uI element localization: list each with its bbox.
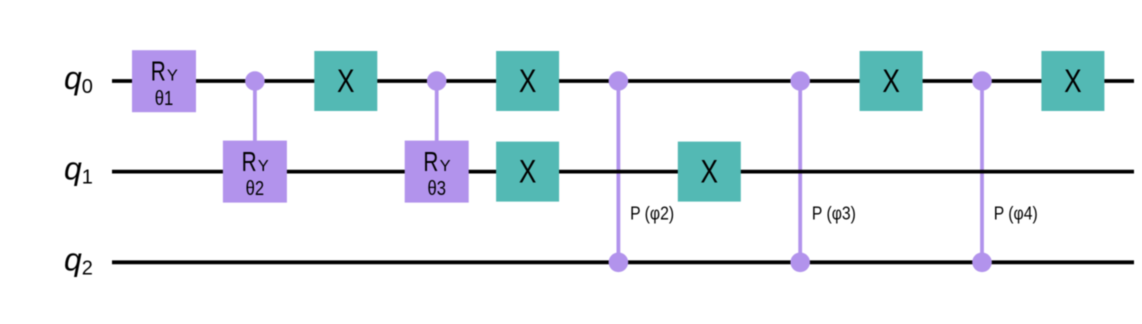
svg-text:θ1: θ1 <box>155 88 174 110</box>
svg-text:P (φ3): P (φ3) <box>812 203 856 223</box>
svg-text:X: X <box>882 63 900 99</box>
svg-text:Y: Y <box>440 158 451 175</box>
svg-text:R: R <box>151 56 166 87</box>
svg-text:P (φ4): P (φ4) <box>994 203 1038 223</box>
svg-text:Y: Y <box>258 158 269 175</box>
svg-text:R: R <box>423 146 438 177</box>
svg-text:X: X <box>519 63 537 99</box>
svg-text:θ2: θ2 <box>246 178 265 200</box>
svg-text:X: X <box>1064 63 1082 99</box>
svg-text:θ3: θ3 <box>427 178 446 200</box>
svg-text:Y: Y <box>167 68 178 85</box>
svg-text:P (φ2): P (φ2) <box>630 203 674 223</box>
svg-text:X: X <box>519 153 537 189</box>
svg-text:X: X <box>701 153 719 189</box>
svg-text:X: X <box>337 63 355 99</box>
svg-text:R: R <box>242 146 257 177</box>
